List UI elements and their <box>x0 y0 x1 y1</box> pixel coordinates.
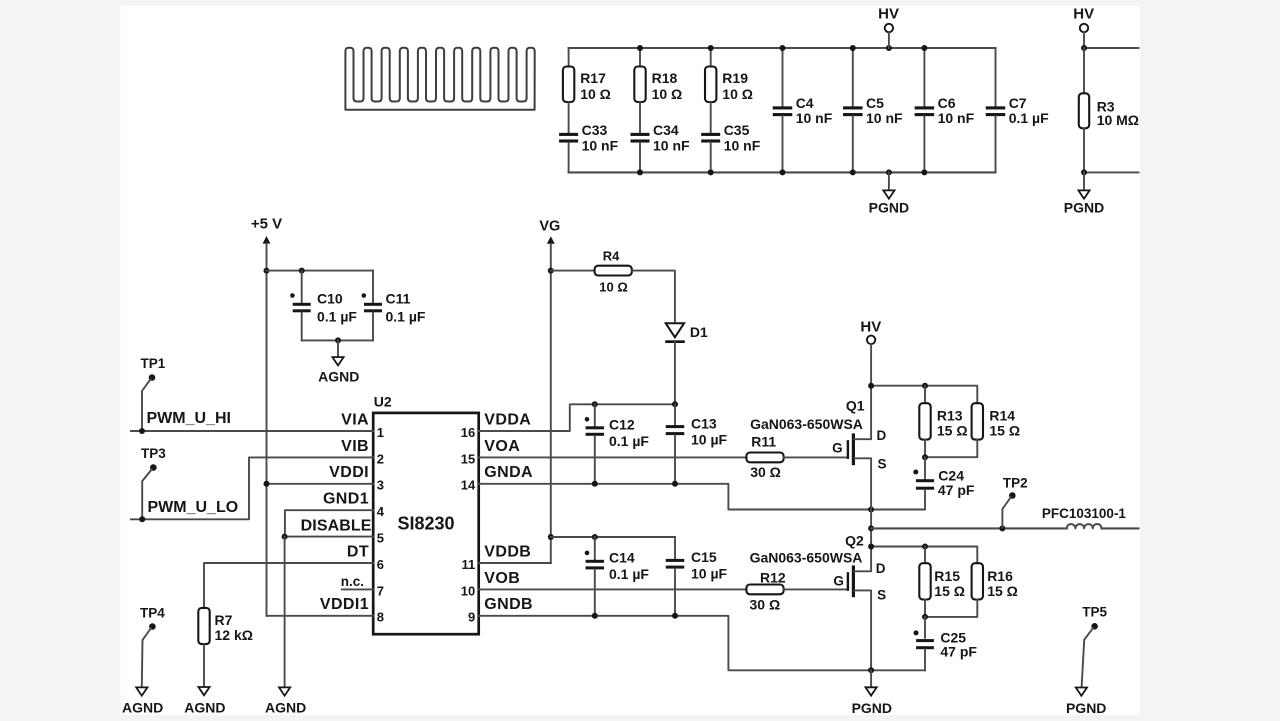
svg-text:S: S <box>877 588 886 603</box>
svg-text:PGND: PGND <box>1066 700 1106 716</box>
wire from R3 bottom node to right edge <box>1084 171 1139 173</box>
capacitor C10 0.1 uF <box>299 268 305 274</box>
svg-text:TP1: TP1 <box>141 356 166 371</box>
svg-text:VDDA: VDDA <box>484 411 531 428</box>
wire PWM_U_LO / VIB pin 2 <box>131 457 373 519</box>
svg-text:R14: R14 <box>989 408 1015 424</box>
svg-text:G: G <box>832 441 843 456</box>
svg-text:C35: C35 <box>724 122 750 138</box>
svg-text:15 Ω: 15 Ω <box>987 583 1018 599</box>
ground PGND (top cap bank) <box>888 172 890 190</box>
wire PWM_U_HI / VIA pin 1 <box>131 430 373 432</box>
svg-text:PGND: PGND <box>852 700 892 716</box>
wire VDDI1 pin 8 <box>267 615 374 617</box>
svg-text:10 MΩ: 10 MΩ <box>1097 112 1139 128</box>
junction dots on top rail <box>637 45 643 51</box>
svg-text:15: 15 <box>461 451 475 466</box>
svg-text:HV: HV <box>860 318 881 335</box>
resistor R11 30 Ohm <box>746 453 783 463</box>
svg-text:C4: C4 <box>796 95 814 111</box>
svg-text:D1: D1 <box>690 324 708 340</box>
svg-text:47 pF: 47 pF <box>938 482 975 498</box>
wire R12 to Q2 gate <box>784 588 847 590</box>
svg-text:8: 8 <box>377 610 384 625</box>
svg-text:+5 V: +5 V <box>251 215 282 232</box>
svg-text:D: D <box>876 561 886 576</box>
wire VG to R4 <box>551 270 595 272</box>
svg-text:R16: R16 <box>987 568 1013 584</box>
svg-text:VOB: VOB <box>484 570 520 587</box>
svg-text:n.c.: n.c. <box>341 574 364 589</box>
bottom rail (PGND) <box>569 171 996 173</box>
svg-text:C14: C14 <box>609 550 635 566</box>
pin 7 n.c. stub <box>342 588 373 590</box>
resistor R14 15 Ohm <box>972 403 983 439</box>
capacitor C15 10 uF <box>674 537 676 558</box>
svg-text:4: 4 <box>377 504 385 519</box>
svg-text:PWM_U_HI: PWM_U_HI <box>147 410 231 427</box>
svg-text:C34: C34 <box>653 122 679 138</box>
svg-text:11: 11 <box>461 557 475 572</box>
svg-text:R13: R13 <box>937 408 963 424</box>
svg-text:10 Ω: 10 Ω <box>599 279 628 294</box>
svg-text:30 Ω: 30 Ω <box>750 596 781 612</box>
svg-text:47 pF: 47 pF <box>940 643 977 659</box>
wire GNDA pin 14 to Q1 source <box>479 484 925 510</box>
VDDB decoupling rail <box>479 562 551 564</box>
svg-text:VIA: VIA <box>341 411 369 428</box>
svg-text:7: 7 <box>377 583 384 598</box>
svg-text:TP4: TP4 <box>140 605 165 620</box>
svg-text:C5: C5 <box>866 95 884 111</box>
svg-text:10 nF: 10 nF <box>866 110 903 126</box>
wire from HV node to right edge <box>1084 47 1139 49</box>
capacitor C34 10 nF <box>631 133 650 136</box>
svg-text:VDDB: VDDB <box>484 543 531 560</box>
capacitor C4 10 nF <box>782 48 784 106</box>
svg-text:C15: C15 <box>691 549 717 565</box>
ground AGND (R7) <box>198 687 209 695</box>
capacitor C14 0.1 uF <box>594 537 596 559</box>
svg-text:GaN063-650WSA: GaN063-650WSA <box>750 416 863 432</box>
svg-text:PWM_U_LO: PWM_U_LO <box>148 499 239 516</box>
svg-text:G: G <box>833 574 844 589</box>
resistor R3 10 MOhm <box>1083 48 1085 93</box>
svg-text:0.1 µF: 0.1 µF <box>609 433 649 449</box>
capacitor C24 47 pF <box>924 457 926 479</box>
capacitor C33 10 nF <box>559 133 578 136</box>
svg-text:C6: C6 <box>938 95 956 111</box>
resistor R15 15 Ohm <box>924 547 926 564</box>
svg-text:R12: R12 <box>760 569 786 585</box>
svg-text:R7: R7 <box>215 612 233 628</box>
wire GND to AGND <box>284 537 286 688</box>
svg-text:R19: R19 <box>722 70 748 86</box>
svg-text:2: 2 <box>377 451 384 466</box>
svg-text:AGND: AGND <box>265 700 306 716</box>
capacitor C6 10 nF <box>923 48 925 106</box>
Q1 drain node wire <box>871 386 977 404</box>
svg-text:1: 1 <box>377 425 384 440</box>
capacitor C25 47 pF <box>924 617 926 638</box>
resistor R19 10 Ohm <box>710 48 712 67</box>
svg-text:10: 10 <box>461 583 475 598</box>
svg-text:AGND: AGND <box>318 368 359 384</box>
svg-text:R4: R4 <box>603 249 620 264</box>
wire D1 to VDDA rail <box>674 342 676 404</box>
ground AGND (U2) <box>279 687 290 695</box>
svg-text:0.1 µF: 0.1 µF <box>317 308 357 324</box>
junction dots on bottom rail <box>637 169 643 175</box>
svg-text:TP5: TP5 <box>1082 605 1107 620</box>
svg-text:PGND: PGND <box>1064 200 1104 216</box>
phase wire to inductor <box>871 527 1067 529</box>
svg-text:HV: HV <box>1073 5 1094 22</box>
switch node wire (Q1 S to Q2 D) <box>870 510 872 547</box>
svg-text:C11: C11 <box>386 290 411 306</box>
ground PGND (TP5) <box>1076 688 1087 696</box>
capacitor C11 0.1 uF <box>372 271 374 303</box>
svg-text:PGND: PGND <box>869 200 909 216</box>
svg-text:12 kΩ: 12 kΩ <box>215 627 253 643</box>
resistor R4 10 Ohm <box>595 266 632 276</box>
svg-text:10 Ω: 10 Ω <box>652 86 683 102</box>
svg-text:R11: R11 <box>751 434 776 450</box>
wire C10/C11 bottom <box>302 339 373 341</box>
svg-text:R15: R15 <box>934 568 960 584</box>
svg-text:R18: R18 <box>652 70 678 86</box>
svg-text:VG: VG <box>539 218 560 234</box>
+5 V vertical wire <box>266 244 268 616</box>
ground AGND (TP4) <box>136 687 147 695</box>
svg-text:10 µF: 10 µF <box>691 565 728 581</box>
wire VOB pin 10 to R12 <box>479 588 747 590</box>
svg-text:C33: C33 <box>582 122 608 138</box>
diode D1 <box>666 323 684 337</box>
inductor PFC103100-1 <box>1067 524 1102 528</box>
svg-text:GND1: GND1 <box>323 491 369 508</box>
ground AGND (C10/C11) <box>337 340 339 357</box>
svg-text:15 Ω: 15 Ω <box>989 422 1020 438</box>
capacitor C12 0.1 uF <box>594 404 596 426</box>
svg-text:10 Ω: 10 Ω <box>580 86 611 102</box>
svg-text:10 µF: 10 µF <box>691 432 728 448</box>
svg-text:HV: HV <box>878 5 899 22</box>
svg-text:PFC103100-1: PFC103100-1 <box>1042 506 1127 521</box>
svg-text:D: D <box>877 428 887 443</box>
svg-text:TP3: TP3 <box>141 446 166 461</box>
svg-text:15 Ω: 15 Ω <box>937 422 968 438</box>
Q2 drain node wire <box>871 547 977 564</box>
svg-text:Q1: Q1 <box>846 398 865 414</box>
svg-text:16: 16 <box>461 425 475 440</box>
svg-text:10 nF: 10 nF <box>938 110 975 126</box>
svg-text:C12: C12 <box>609 416 635 432</box>
svg-text:C13: C13 <box>691 416 717 432</box>
svg-text:AGND: AGND <box>122 700 163 716</box>
svg-text:15 Ω: 15 Ω <box>934 583 965 599</box>
capacitor C5 10 nF <box>852 48 854 106</box>
svg-text:VIB: VIB <box>341 438 369 455</box>
svg-text:C10: C10 <box>317 290 343 306</box>
VDDA decoupling rail <box>479 404 675 431</box>
wire GNDB pin 9 to Q2 source <box>479 616 925 671</box>
svg-text:R17: R17 <box>580 70 606 86</box>
svg-text:GaN063-650WSA: GaN063-650WSA <box>750 550 863 566</box>
IC U2 SI8230 body <box>373 413 479 634</box>
svg-text:AGND: AGND <box>184 700 225 716</box>
svg-text:10 nF: 10 nF <box>724 138 761 154</box>
resistor R12 30 Ohm <box>746 585 783 595</box>
svg-text:SI8230: SI8230 <box>397 514 454 534</box>
capacitor C13 10 uF <box>674 404 676 424</box>
svg-text:6: 6 <box>377 557 384 572</box>
svg-text:10 nF: 10 nF <box>796 110 833 126</box>
svg-text:Q2: Q2 <box>845 533 864 549</box>
svg-text:0.1 µF: 0.1 µF <box>609 566 649 582</box>
svg-text:VDDI1: VDDI1 <box>320 596 369 613</box>
svg-text:10 Ω: 10 Ω <box>722 86 753 102</box>
svg-text:10 nF: 10 nF <box>653 138 690 154</box>
svg-text:DISABLE: DISABLE <box>301 518 372 535</box>
svg-text:0.1 µF: 0.1 µF <box>1009 110 1049 126</box>
svg-text:VDDI: VDDI <box>329 464 369 481</box>
wire VDDI pin 3 <box>267 483 374 485</box>
svg-text:30 Ω: 30 Ω <box>750 464 781 480</box>
svg-text:GNDB: GNDB <box>484 596 533 613</box>
VG vertical wire <box>550 244 552 563</box>
heat sink symbol <box>345 48 534 110</box>
svg-text:5: 5 <box>377 531 384 546</box>
svg-text:9: 9 <box>468 610 475 625</box>
svg-text:GNDA: GNDA <box>484 464 533 481</box>
capacitor C7 0.1 uF <box>995 48 997 106</box>
svg-text:VOA: VOA <box>484 438 520 455</box>
resistor R16 15 Ohm <box>972 563 983 599</box>
svg-text:3: 3 <box>377 478 384 493</box>
capacitor C35 10 nF <box>701 133 720 136</box>
wire R4 to D1 <box>632 271 675 324</box>
svg-text:U2: U2 <box>374 394 392 410</box>
top HV rail <box>569 47 996 49</box>
wire VOA pin 15 to R11 <box>479 456 747 458</box>
svg-text:TP2: TP2 <box>1003 475 1028 490</box>
svg-text:10 nF: 10 nF <box>582 138 619 154</box>
svg-text:0.1 µF: 0.1 µF <box>386 308 426 324</box>
wire R11 to Q1 gate <box>784 456 847 458</box>
wire inductor to right edge <box>1102 527 1139 529</box>
resistor R18 10 Ohm <box>639 48 641 67</box>
resistor R13 15 Ohm <box>924 386 926 404</box>
svg-text:DT: DT <box>347 543 369 560</box>
wire DT pin 6 to R7 <box>204 563 373 608</box>
ground PGND (R3 branch) <box>1083 172 1085 190</box>
ground PGND (Q2 source) <box>870 670 872 687</box>
node +5V to C10/C11 <box>264 268 270 274</box>
svg-text:C7: C7 <box>1009 95 1027 111</box>
resistor R7 12 kOhm <box>198 608 209 644</box>
wire DISABLE pin 5 <box>284 536 373 538</box>
svg-text:S: S <box>878 456 887 471</box>
resistor R17 10 Ohm <box>568 48 570 67</box>
svg-text:14: 14 <box>461 478 476 493</box>
wire GND1 pin 4 <box>285 510 373 536</box>
schematic white sheet <box>121 6 1141 715</box>
